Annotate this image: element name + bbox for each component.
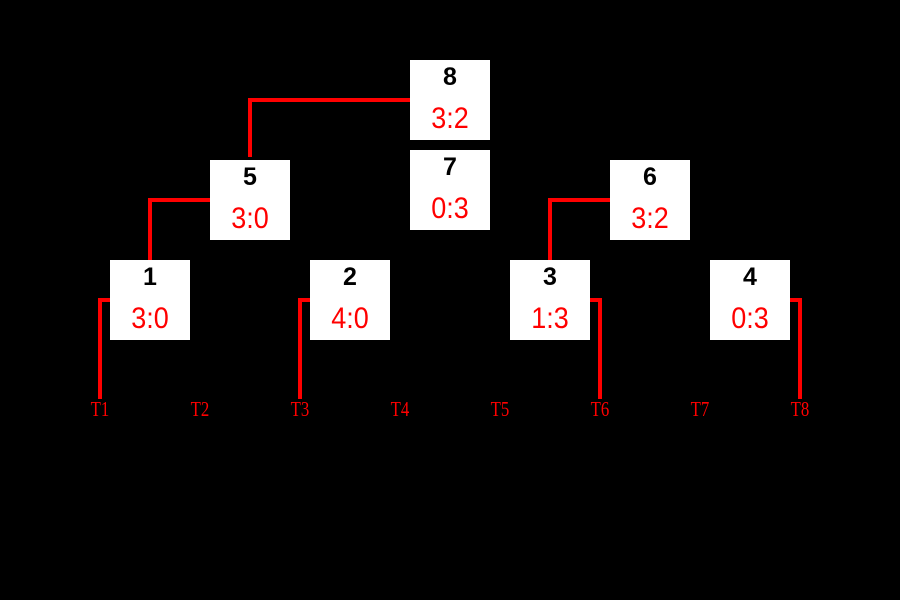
match box 2: [310, 260, 390, 340]
wire T6 vertical: [598, 298, 602, 399]
wire T1 vertical: [98, 298, 102, 399]
wire T1 to box1 horizontal: [98, 298, 110, 302]
node T6: [576, 399, 624, 420]
node T5: [476, 399, 524, 420]
node T1: [76, 399, 124, 420]
node T2: [176, 399, 224, 420]
wire T3 to box2 horizontal: [298, 298, 310, 302]
wire box1 to box5 horizontal: [148, 198, 210, 202]
match box 1: [110, 260, 190, 340]
wire T8 vertical: [798, 298, 802, 399]
wire box1 to box5 vertical: [148, 198, 152, 260]
match box 4: [710, 260, 790, 340]
node T8: [776, 399, 824, 420]
wire box5 to box8 vertical: [248, 98, 252, 157]
wire box3 to box6 horizontal: [548, 198, 610, 202]
match box 5: [210, 160, 290, 240]
node T3: [276, 399, 324, 420]
match box 7: [410, 150, 490, 230]
wire box3 to T6 horizontal: [590, 298, 602, 302]
match box 3: [510, 260, 590, 340]
node T4: [376, 399, 424, 420]
wire box5 to box8 horizontal: [248, 98, 410, 102]
wire box3 to box6 vertical: [548, 198, 552, 260]
wire T3 vertical: [298, 298, 302, 399]
node T7: [676, 399, 724, 420]
wire box4 to T8 horizontal: [790, 298, 802, 302]
match box 8: [410, 60, 490, 140]
match box 6: [610, 160, 690, 240]
